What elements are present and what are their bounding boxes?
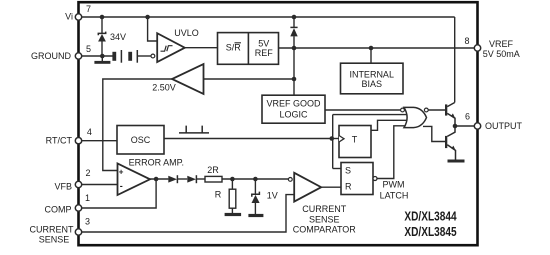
svg-text:XD/XL3845: XD/XL3845 — [404, 225, 456, 239]
comparator inverting input bubble — [288, 178, 292, 182]
svg-text:5V 50mA: 5V 50mA — [483, 49, 520, 59]
wire error amp output — [150, 178, 169, 180]
wire OSC output — [164, 138, 332, 140]
pin 1 COMP — [75, 205, 81, 211]
zener diode 34V — [98, 32, 106, 42]
latch S R (PWM latch) U4 — [341, 163, 373, 195]
wire VFB pin2 to error amp — [79, 184, 118, 186]
svg-text:LATCH: LATCH — [380, 190, 409, 200]
op-amp current sense comparator — [294, 173, 321, 202]
NOR gate U5 — [404, 107, 427, 127]
block S/R and 5V REF U2 — [218, 33, 279, 65]
wire collector drop from Vi rail — [454, 17, 456, 103]
svg-text:+: + — [119, 168, 124, 177]
wire comparator output to latch R — [321, 186, 341, 188]
svg-text:VREF: VREF — [489, 39, 514, 49]
op-amp 2.50V reference buffer — [172, 64, 204, 94]
block VREF GOOD LOGIC — [262, 95, 325, 123]
svg-text:1: 1 — [85, 193, 90, 203]
wire zener 1V ground stub — [254, 203, 256, 214]
IC body outline — [79, 2, 478, 245]
junction at pin5 ground node — [100, 54, 105, 59]
svg-text:RT/CT: RT/CT — [46, 135, 73, 145]
svg-text:34V: 34V — [110, 32, 126, 42]
junction OSC output node — [330, 136, 335, 141]
wire resistor R top stub — [231, 179, 233, 189]
block OSC — [117, 126, 164, 155]
PWM latch output bubble — [373, 177, 377, 181]
battery reference (UVLO threshold) — [112, 50, 137, 63]
pin 2 VFB — [75, 181, 81, 187]
pin 3 CURRENT SENSE — [75, 229, 81, 235]
wire GROUND pin5 to battery — [79, 55, 113, 57]
svg-text:S/R: S/R — [226, 43, 242, 53]
svg-text:XD/XL3844: XD/XL3844 — [404, 210, 456, 224]
svg-text:2: 2 — [85, 168, 90, 178]
pin 6 OUTPUT — [474, 123, 480, 129]
wire VREF column to vref good logic — [293, 48, 295, 95]
svg-text:1V: 1V — [267, 190, 278, 200]
wire zener 1V top stub — [254, 179, 256, 194]
junction at diode top on Vi rail — [292, 15, 297, 20]
wire output node to pin6 — [455, 125, 478, 127]
junction error amp output node — [154, 177, 159, 182]
wire gate bubble to Q1 base — [428, 109, 445, 111]
junction 2.50V node — [292, 77, 297, 82]
wire T flip-flop output to gate — [371, 120, 409, 130]
junction VREF rail at internal bias — [369, 46, 374, 51]
resistor R — [229, 189, 236, 208]
wire CURRENT SENSE pin3 to comparator — [79, 195, 295, 232]
op-amp ERROR AMP — [118, 164, 151, 196]
gate input bubble left — [401, 108, 405, 112]
svg-text:R: R — [345, 182, 352, 192]
svg-text:3: 3 — [85, 217, 90, 227]
junction at zener 1V — [253, 177, 258, 182]
svg-text:6: 6 — [465, 111, 470, 121]
pin 8 VREF — [474, 45, 480, 51]
svg-text:ERROR AMP.: ERROR AMP. — [129, 158, 184, 168]
svg-text:R: R — [215, 189, 222, 199]
svg-text:7: 7 — [86, 4, 91, 14]
transistor Q1 (top NPN) — [445, 103, 456, 127]
wire ground stub at pin5 node — [101, 56, 103, 61]
diode D3 — [187, 175, 196, 183]
wire between D2 and D3 — [178, 178, 188, 180]
wire zener D1 bottom stub — [101, 41, 103, 56]
wire VREF-to-VCC diode bottom stub — [293, 36, 295, 48]
transistor Q2 (bottom NPN) — [445, 126, 456, 160]
svg-text:GROUND: GROUND — [31, 51, 71, 61]
wire OSC node to T clock — [332, 138, 339, 140]
svg-text:OUTPUT: OUTPUT — [485, 121, 523, 131]
ground below resistor R — [225, 213, 242, 216]
overline on R — [235, 42, 242, 44]
junction at resistor R — [230, 177, 235, 182]
wire OSC node column — [332, 115, 334, 169]
flip-flop T U3 — [339, 126, 371, 158]
wire VREF-to-VCC diode top stub — [293, 17, 295, 27]
svg-text:UVLO: UVLO — [174, 28, 199, 38]
svg-text:REF: REF — [255, 48, 274, 58]
wire battery to UVLO bubble — [138, 55, 151, 57]
pin 5 GROUND — [75, 53, 81, 59]
junction VREF rail at diode — [292, 46, 297, 51]
wire UVLO output — [185, 47, 218, 49]
block INTERNAL BIAS — [341, 63, 404, 94]
wire resistor R ground stub — [231, 208, 233, 213]
svg-text:SENSE: SENSE — [309, 214, 340, 224]
svg-text:Vi: Vi — [65, 11, 73, 21]
wire Vi rail pin7 — [79, 16, 455, 18]
ground at Q2 emitter — [448, 160, 465, 163]
resistor 2R — [205, 176, 222, 182]
wire COMP pin1 to error amp output — [79, 179, 157, 208]
svg-text:-: - — [120, 181, 123, 191]
wire zener D1 top stub — [101, 17, 103, 33]
svg-text:OSC: OSC — [131, 135, 151, 145]
junction at zener 34V top — [100, 15, 105, 20]
node UVLO reference input bubble — [151, 54, 155, 58]
diode VREF to VCC — [290, 27, 297, 36]
clock waveform glyph — [179, 126, 209, 133]
svg-text:T: T — [352, 134, 358, 144]
ground below zener 1V — [248, 214, 263, 217]
wire vref good logic to gate bubble — [325, 109, 401, 111]
wire gate output to Q2 base — [423, 126, 445, 141]
gate output bubble right — [424, 108, 428, 112]
svg-text:SENSE: SENSE — [39, 234, 70, 244]
svg-text:BIAS: BIAS — [361, 79, 382, 89]
pin 7 Vi — [75, 14, 81, 20]
svg-text:S: S — [345, 165, 351, 175]
ground at pin5 node — [94, 61, 110, 64]
wire D3 to resistor 2R — [196, 178, 205, 180]
svg-text:LOGIC: LOGIC — [279, 109, 308, 119]
svg-text:INTERNAL: INTERNAL — [349, 70, 394, 80]
wire UVLO upper input — [148, 17, 158, 41]
wire VREF rail to pin8 — [279, 47, 478, 49]
svg-text:COMP: COMP — [45, 205, 72, 215]
svg-text:CURRENT: CURRENT — [30, 225, 75, 235]
wire OSC node to gate input — [333, 114, 409, 116]
pin 4 RT/CT — [75, 138, 81, 144]
wire OSC node to latch S input — [333, 168, 341, 170]
svg-text:5V: 5V — [258, 38, 269, 48]
svg-text:4: 4 — [87, 127, 92, 137]
svg-text:2.50V: 2.50V — [152, 83, 176, 93]
diode D2 — [168, 175, 177, 183]
wire internal bias drop — [370, 48, 372, 63]
svg-text:CURRENT: CURRENT — [302, 204, 347, 214]
wire 2R to comparator bubble — [222, 178, 288, 180]
svg-text:8: 8 — [464, 36, 469, 46]
svg-text:VREF GOOD: VREF GOOD — [266, 98, 321, 108]
wire 2.50V amp output to error amp + — [103, 79, 172, 171]
junction at UVLO input drop — [145, 15, 150, 20]
wire PWM latch output to gate — [377, 126, 409, 179]
zener diode 1V — [252, 192, 260, 203]
svg-text:PWM: PWM — [383, 179, 405, 189]
op-amp UVLO comparator — [157, 33, 185, 62]
svg-text:VFB: VFB — [54, 182, 72, 192]
wire RT/CT pin4 to OSC — [79, 140, 118, 142]
wire 2.50V amp input — [204, 78, 295, 80]
junction totem pole output node — [453, 124, 458, 129]
svg-text:2R: 2R — [207, 165, 219, 175]
svg-text:COMPARATOR: COMPARATOR — [293, 224, 357, 234]
svg-text:5: 5 — [86, 44, 91, 54]
